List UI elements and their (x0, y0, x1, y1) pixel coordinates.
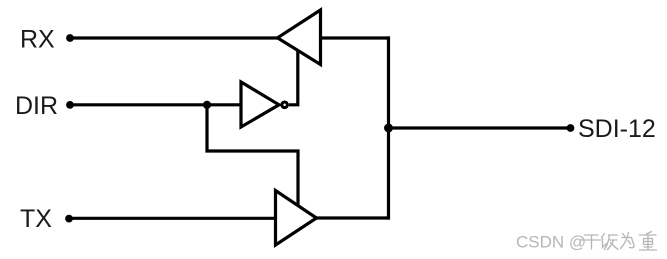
wire U1 input to bus (321, 36, 389, 39)
glyph zhong (640, 232, 657, 251)
wire TX to buffer U3 (69, 217, 276, 220)
junction bus node (384, 124, 393, 133)
inverter U2 output bubble (282, 102, 288, 108)
wire DIR to inverter U2 (70, 103, 242, 106)
node DIR terminal dot (66, 101, 74, 109)
svg-text:TX: TX (20, 205, 52, 233)
glyph wei (621, 233, 635, 249)
svg-text:SDI-12: SDI-12 (578, 115, 656, 143)
node SDI-12 terminal dot (567, 124, 575, 132)
wire U3 output to bus (317, 216, 389, 219)
inverter U2 triangle (241, 82, 279, 127)
svg-text:RX: RX (20, 26, 55, 54)
wire bus to SDI-12 terminal (389, 126, 571, 129)
svg-text:CSDN @: CSDN @ (516, 232, 586, 251)
svg-text:DIR: DIR (15, 92, 58, 120)
glyph gan (582, 235, 601, 249)
wire vertical bus SDI-12 (387, 36, 390, 219)
buffer U1 (RX receive buffer, pointing left) (278, 10, 321, 65)
buffer U3 (TX drive buffer, pointing right) (276, 191, 317, 246)
node RX terminal dot (66, 34, 74, 42)
wire inverter output to U1 enable (289, 50, 298, 105)
wire RX to buffer U1 tip (70, 36, 278, 39)
wire DIR branch to U3 enable (207, 105, 298, 205)
junction DIR branch (203, 101, 211, 109)
node TX terminal dot (65, 215, 73, 223)
glyph fan (602, 234, 619, 250)
watermark Chinese glyphs 干饭为重 (582, 232, 657, 251)
